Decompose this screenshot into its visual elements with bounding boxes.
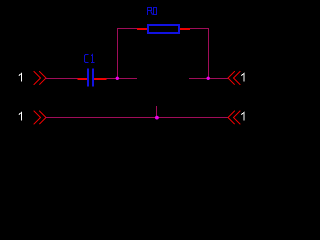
wire port to C1 (46, 78, 78, 80)
port chevrons bottom-left (34, 111, 47, 125)
port label 1 middle-left (19, 73, 22, 81)
port label 1 middle-right (241, 73, 244, 81)
wire left vertical (117, 28, 119, 79)
label C1 (85, 55, 95, 63)
port label 1 bottom-right (241, 112, 244, 120)
wire stub above node C (156, 106, 158, 118)
pin C1 right (94, 78, 107, 80)
pin R0 right (180, 28, 190, 30)
wire top right horizontal (190, 28, 209, 30)
wire bottom net (46, 117, 228, 119)
wire C1 to stub end (107, 78, 138, 80)
pin R0 left (137, 28, 147, 30)
pin C1 left (78, 78, 88, 80)
junction node C (155, 116, 159, 120)
resistor R0 body (148, 25, 179, 33)
port label 1 bottom-left (19, 112, 22, 120)
wire right vertical (208, 28, 210, 79)
port chevrons middle-right (228, 71, 241, 85)
capacitor C1 plates (88, 69, 93, 87)
label R0 (148, 8, 157, 16)
port chevrons bottom-right (228, 111, 241, 125)
wire node B to right port (189, 78, 228, 80)
port chevrons middle-left (34, 71, 47, 85)
wire top left horizontal (117, 28, 137, 30)
junction node B (207, 77, 210, 80)
junction node A (116, 77, 119, 80)
